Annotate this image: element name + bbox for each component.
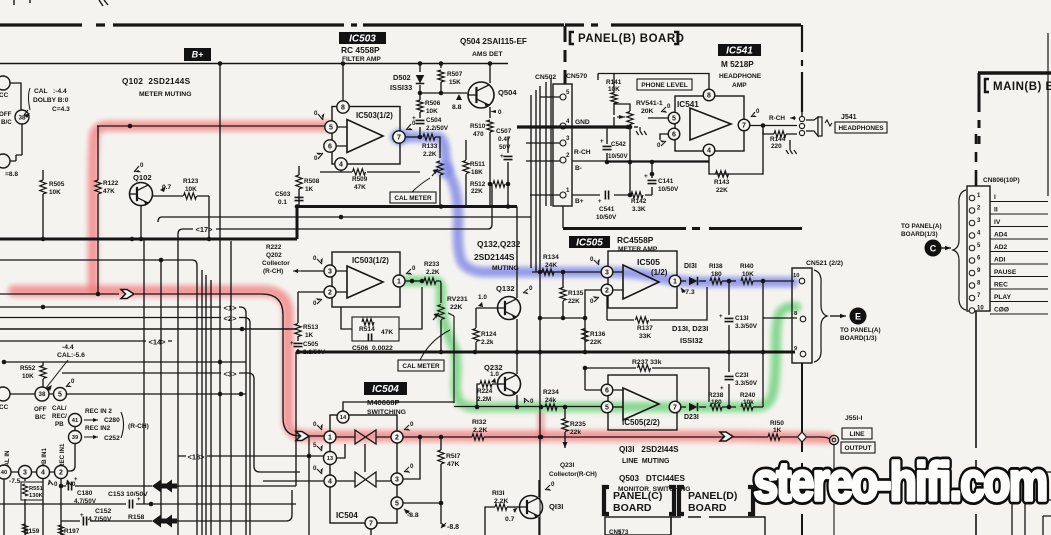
svg-text:0: 0	[313, 255, 317, 262]
resistor R140	[741, 278, 753, 284]
svg-text:CN806(10P): CN806(10P)	[983, 177, 1020, 184]
svg-text:2.2K: 2.2K	[426, 269, 440, 276]
op-amp IC505(2/2) rect	[608, 375, 677, 430]
svg-text:38: 38	[39, 391, 46, 398]
svg-text:R513: R513	[303, 324, 319, 331]
resistor R510	[487, 120, 493, 132]
wire y=217 line	[158, 217, 531, 222]
svg-text:47K: 47K	[447, 461, 460, 468]
connector CN806 pin 7 PLAY	[969, 295, 975, 301]
pin 3 IC504	[391, 473, 403, 485]
headphone plug symbol	[806, 117, 818, 136]
op-amp IC541 triangle	[690, 108, 731, 140]
pin 7 IC504	[365, 517, 377, 529]
wire Q504 emitter down to R510	[489, 107, 491, 118]
svg-text:R237 33k: R237 33k	[632, 359, 662, 366]
wire feedback R509 loop	[320, 170, 420, 172]
pin 6 IC505b	[601, 384, 613, 396]
highlight green line-out trace	[402, 281, 796, 407]
svg-text:15K: 15K	[449, 79, 461, 86]
svg-text:C280: C280	[104, 417, 120, 424]
pin 38 lower	[35, 387, 49, 401]
resistor R233	[424, 278, 436, 284]
wire R122 vertical x=98	[97, 126, 99, 294]
svg-text:0: 0	[590, 256, 594, 263]
svg-text:PAUSE: PAUSE	[994, 269, 1017, 276]
svg-text:2.2k: 2.2k	[481, 339, 494, 346]
resistor R132	[472, 434, 484, 440]
wire pins 41-39 to pin2	[67, 427, 75, 471]
label -8.8 below R517	[441, 523, 446, 528]
svg-text:8.8: 8.8	[452, 104, 462, 111]
svg-text:J541: J541	[841, 114, 857, 121]
svg-text:1.0: 1.0	[490, 371, 499, 378]
resistor R508	[296, 175, 302, 189]
resistor R131	[495, 504, 507, 510]
arrow 0 Q504 emitter	[490, 110, 496, 113]
wire Q102 collector line y=126 (under red)	[97, 125, 325, 127]
svg-text:4: 4	[339, 162, 343, 169]
pin 5 IC503	[325, 121, 337, 133]
svg-text:10K: 10K	[49, 189, 61, 196]
wire Q132 base R124	[476, 308, 498, 352]
transistor Q232	[498, 373, 521, 396]
pin 38	[15, 110, 29, 124]
wire Q102 base to R123 to x=209	[152, 196, 209, 239]
connector J541 contacts	[799, 116, 804, 121]
svg-text:R137: R137	[637, 325, 653, 332]
op-amp IC505(1/2) triangle	[623, 265, 659, 299]
svg-text:Q102: Q102	[133, 173, 152, 182]
svg-text:C152: C152	[95, 508, 111, 515]
svg-text:Q503 DTCI44ES: Q503 DTCI44ES	[619, 474, 686, 483]
capacitor C541	[605, 191, 608, 200]
svg-text:-4.4: -4.4	[62, 344, 74, 351]
resistor R505	[40, 180, 46, 194]
chip IC504 rect	[330, 415, 397, 523]
svg-text:R124: R124	[481, 331, 497, 338]
diode D131	[681, 280, 686, 282]
svg-text:3: 3	[605, 270, 609, 277]
svg-text:PANEL(D): PANEL(D)	[688, 490, 737, 502]
svg-text:AMP: AMP	[732, 82, 747, 89]
svg-text:C153 10/50V: C153 10/50V	[108, 491, 148, 498]
wire x=309 below	[308, 436, 310, 535]
resistor R240	[741, 404, 753, 410]
resistor R507	[440, 64, 442, 69]
pin 1 IC503b	[393, 275, 405, 287]
svg-text:8: 8	[707, 93, 711, 100]
svg-text:D23I: D23I	[684, 414, 699, 421]
wire R137 feedback loop	[607, 287, 707, 320]
svg-text:<2>: <2>	[224, 314, 238, 323]
svg-text:RI32: RI32	[472, 419, 487, 426]
op-amp IC503(1/2) lower rect	[332, 252, 400, 307]
pin 8 IC541	[703, 89, 715, 101]
svg-text:+: +	[290, 341, 294, 347]
svg-text:IC503: IC503	[349, 34, 376, 45]
svg-text:HEADPHONES: HEADPHONES	[838, 125, 884, 132]
pin 7 IC503	[393, 131, 405, 143]
pin 8 IC503	[342, 64, 344, 102]
wire stubs into CN502	[526, 97, 560, 195]
svg-text:AD2: AD2	[994, 244, 1008, 251]
capacitor C542	[606, 127, 608, 162]
capacitor C152	[61, 520, 152, 522]
svg-text:REC IN1: REC IN1	[59, 443, 66, 468]
svg-text:0: 0	[54, 481, 58, 488]
resistor R136	[582, 329, 588, 342]
label B+ box	[184, 48, 211, 61]
svg-text:C541: C541	[599, 206, 615, 213]
label 8.8 arrow	[456, 94, 462, 100]
svg-text:3: 3	[566, 135, 570, 142]
svg-text:180: 180	[711, 271, 722, 278]
svg-text:2: 2	[566, 152, 570, 159]
resistor R509	[353, 169, 366, 175]
connector pin 3 R-CH	[560, 140, 566, 146]
resistor R137	[636, 317, 649, 323]
svg-text:E: E	[855, 312, 861, 322]
svg-text:2: 2	[59, 470, 63, 477]
resistor R506	[417, 100, 423, 112]
wire thick ground bus y=239	[0, 238, 297, 241]
svg-text:LINE MUTING: LINE MUTING	[622, 458, 670, 465]
label CAL METER box top	[390, 192, 436, 203]
svg-text:-7.5: -7.5	[9, 478, 21, 485]
svg-text:PLAY: PLAY	[994, 294, 1012, 301]
capacitor C503	[295, 197, 304, 200]
svg-text:2.2M: 2.2M	[477, 396, 491, 403]
wire vertical x=220 B+ to bottom	[219, 64, 221, 535]
wire line y=294 with bus arrow (under red)	[0, 294, 308, 436]
ground at GND bus	[634, 126, 638, 128]
svg-text:R197: R197	[64, 528, 80, 535]
svg-text:Q102 2SD2144S: Q102 2SD2144S	[122, 77, 191, 86]
chevron arrow y=486	[152, 480, 166, 493]
svg-text:OFF: OFF	[0, 111, 12, 118]
svg-text:R507: R507	[447, 71, 463, 78]
resistor R512	[493, 181, 505, 187]
svg-text:+: +	[412, 115, 416, 122]
wire pin2 feedback	[585, 290, 623, 352]
svg-text:0: 0	[657, 142, 661, 149]
svg-text:2.2K: 2.2K	[494, 498, 508, 505]
resistor R517	[438, 450, 444, 464]
svg-text:22k: 22k	[570, 429, 581, 436]
wire <18> line y=456	[178, 455, 324, 457]
pin 2 IC505a	[601, 284, 613, 296]
connector box CN573	[605, 517, 671, 535]
svg-text:7: 7	[369, 521, 373, 528]
svg-text:REC: REC	[994, 282, 1008, 289]
svg-text:0: 0	[590, 298, 594, 305]
svg-text:D502: D502	[393, 73, 411, 82]
svg-text:AD4: AD4	[994, 232, 1008, 239]
svg-text:Collector(R-CH): Collector(R-CH)	[549, 471, 597, 478]
svg-text:2.2K: 2.2K	[423, 151, 437, 158]
svg-text:BOARD: BOARD	[688, 502, 727, 514]
connector CN806 pin 9 PAUSE	[969, 270, 975, 276]
svg-text:6: 6	[328, 144, 332, 151]
bus arrow on y=294	[121, 290, 134, 299]
svg-text:2.2K: 2.2K	[473, 427, 487, 434]
connector CN806 pin 4 AD4	[969, 233, 975, 239]
label OUTPUT box	[841, 442, 875, 453]
wire pin verticals down	[4, 479, 61, 535]
svg-text:3: 3	[328, 269, 332, 276]
svg-text:1K: 1K	[305, 186, 314, 193]
wire R505 vertical	[42, 170, 44, 239]
arrow 0 Q131 collector	[545, 485, 550, 490]
svg-text:R222: R222	[266, 244, 282, 251]
brace right of CN521	[814, 270, 827, 362]
connector CN806 box	[967, 186, 990, 311]
diode D231	[681, 406, 686, 408]
wire pin1 row y=195 with C541 R142	[572, 194, 652, 196]
svg-text:Q504 2SAI115-EF: Q504 2SAI115-EF	[460, 37, 527, 46]
transistor Q132	[498, 297, 521, 320]
svg-text:RV231: RV231	[447, 296, 468, 303]
wire to CN521 pin8	[763, 281, 797, 407]
svg-text:<1>: <1>	[224, 304, 238, 313]
wire R131 left	[485, 507, 495, 535]
svg-text:RV541-1: RV541-1	[636, 100, 663, 107]
svg-text:18K: 18K	[471, 169, 483, 176]
svg-text:IC504: IC504	[336, 511, 358, 520]
resistor R511	[463, 161, 469, 174]
connector pin 2 B-	[560, 157, 566, 163]
svg-text:B/C: B/C	[1, 119, 12, 126]
wire R507 to Q504 base	[420, 82, 467, 93]
svg-text:C23I: C23I	[735, 372, 749, 379]
pin 2 lower	[55, 466, 68, 479]
svg-text:1: 1	[673, 279, 677, 286]
svg-text:0: 0	[71, 378, 75, 385]
capacitor C141	[651, 162, 653, 195]
svg-text:0: 0	[313, 300, 317, 307]
chevron arrow y=521	[152, 515, 166, 528]
wire small bus verticals x=202,206,211	[202, 270, 211, 535]
resistor R143	[716, 171, 729, 177]
svg-text:5: 5	[395, 501, 399, 508]
svg-text:0.47: 0.47	[498, 136, 511, 143]
svg-text:R235: R235	[570, 421, 586, 428]
label MAIN(B) header	[978, 71, 1051, 74]
svg-text:C=4.3: C=4.3	[52, 106, 70, 113]
wire below jack	[833, 445, 835, 535]
svg-text:R551: R551	[29, 486, 44, 492]
svg-text:22K: 22K	[450, 304, 463, 311]
brace R-CH	[121, 412, 124, 438]
switch symbol 1 IC504	[355, 430, 376, 444]
wire CN806 row lines right edge	[1047, 33, 1049, 196]
svg-text:<3>: <3>	[224, 370, 238, 379]
svg-text:4: 4	[41, 470, 45, 477]
svg-text:4: 4	[566, 118, 570, 125]
svg-text:R224: R224	[477, 388, 493, 395]
connector CN806 pin 5 AD2	[969, 245, 975, 251]
svg-text:ISSI33: ISSI33	[390, 83, 412, 92]
svg-text:MUTING: MUTING	[492, 265, 519, 272]
wire top board border dashed	[0, 23, 801, 26]
capacitor C231	[728, 352, 730, 407]
pin 1 IC504	[324, 431, 336, 443]
svg-text:10K: 10K	[185, 186, 197, 193]
svg-text:+: +	[719, 313, 723, 320]
resistor R124	[473, 329, 479, 342]
wire thick bus y=206.5 to x=517	[297, 207, 517, 240]
svg-text:0: 0	[756, 108, 760, 115]
svg-text:24k: 24k	[545, 397, 556, 404]
wire chevron line y=486 right	[172, 485, 296, 487]
resistor R235	[562, 419, 568, 432]
op-amp IC505(2/2) triangle	[623, 388, 659, 420]
wire B+ rail y=63.5	[0, 63, 508, 65]
connector box panel D bottom	[671, 517, 765, 535]
pin 5 lower	[54, 388, 67, 401]
resistor R122	[95, 180, 101, 194]
box bottom right 1	[1010, 472, 1051, 500]
svg-text:DI3I: DI3I	[684, 263, 697, 270]
svg-text:<17>: <17>	[195, 225, 213, 234]
wire pin7 to jack R-CH	[750, 125, 797, 127]
op-amp IC505(1/2) rect	[608, 251, 677, 308]
svg-text:IC505(2/2): IC505(2/2)	[622, 418, 660, 427]
svg-text:R143: R143	[714, 179, 730, 186]
svg-text:CN502: CN502	[535, 74, 556, 81]
svg-text:CC: CC	[0, 404, 9, 411]
svg-text:0: 0	[551, 481, 555, 488]
svg-text:14: 14	[340, 415, 347, 421]
wire Q131 emitter collector	[538, 480, 540, 535]
svg-text:METER MUTING: METER MUTING	[139, 91, 191, 98]
svg-text:AMS DET: AMS DET	[472, 51, 503, 58]
wire R133 to RV231a corner	[435, 137, 440, 158]
resistor R150	[768, 434, 780, 440]
wire pin7 to R133	[405, 136, 418, 138]
svg-text:C13I: C13I	[735, 315, 749, 322]
svg-text:ADI: ADI	[994, 257, 1006, 264]
svg-text:PHONE LEVEL: PHONE LEVEL	[641, 82, 688, 89]
wire pin5/pin6 to triangle	[336, 127, 347, 146]
svg-text:(R-CH): (R-CH)	[128, 423, 149, 430]
svg-text:Q132: Q132	[496, 284, 515, 293]
svg-text:0: 0	[314, 110, 318, 117]
svg-text:5: 5	[566, 89, 570, 96]
svg-text:CAL METER: CAL METER	[394, 195, 432, 202]
svg-text:0: 0	[313, 421, 317, 428]
resistor R142	[631, 192, 643, 198]
pin 13 IC504	[324, 452, 337, 465]
resistor R551 boxed	[21, 482, 43, 500]
svg-text:R144: R144	[770, 136, 786, 143]
svg-text:2SD2144S: 2SD2144S	[474, 252, 515, 262]
wire below CN806 vertical	[975, 311, 977, 535]
svg-text:(R-CH): (R-CH)	[263, 268, 283, 275]
svg-text:DOLBY B:0: DOLBY B:0	[33, 97, 69, 104]
potentiometer RV231	[438, 305, 444, 320]
svg-text:QI3I: QI3I	[549, 502, 563, 511]
svg-text:130K: 130K	[29, 493, 44, 499]
svg-text:7: 7	[742, 123, 746, 130]
svg-text:I: I	[994, 194, 996, 201]
pin 3 IC505a	[601, 266, 613, 278]
svg-text:R506: R506	[425, 100, 441, 107]
wire Q232 collector	[516, 352, 518, 374]
svg-text:R509: R509	[352, 176, 368, 183]
box bottom right 2	[1012, 500, 1051, 535]
wire line y=373 <3>	[62, 373, 300, 472]
svg-text:OFF: OFF	[34, 406, 47, 413]
svg-text:10/50V: 10/50V	[608, 153, 628, 160]
svg-text:R234: R234	[543, 389, 559, 396]
svg-text:2.2/50V: 2.2/50V	[426, 125, 449, 132]
svg-text:5: 5	[672, 116, 676, 123]
connector CN806 pin 10 C&#216;&#216;	[969, 308, 975, 314]
wire vertical bus left of CN570	[531, 78, 551, 272]
resistor R224	[480, 381, 492, 387]
svg-text:RI3I: RI3I	[492, 490, 505, 497]
svg-text:47K: 47K	[354, 184, 366, 191]
wire pins row y=472	[11, 471, 54, 473]
wire line y=329	[0, 328, 296, 330]
svg-text:<14>: <14>	[148, 338, 166, 347]
wire pin13 link	[336, 444, 345, 458]
svg-text:R5I7: R5I7	[446, 453, 461, 460]
svg-text:5: 5	[605, 405, 609, 412]
wire left lines into IC504 region	[263, 352, 324, 521]
pin 6 IC541	[668, 128, 680, 140]
wire line y=504 long	[0, 503, 296, 505]
svg-text:R122: R122	[103, 180, 119, 187]
svg-text:20K: 20K	[641, 108, 654, 115]
capacitor C504	[419, 112, 421, 137]
svg-text:22K: 22K	[568, 298, 580, 305]
svg-text:CAL METER: CAL METER	[402, 363, 440, 370]
wire top edge fragments	[14, 0, 108, 6]
svg-text:IC503(1/2): IC503(1/2)	[356, 111, 393, 120]
svg-text:OUTPUT: OUTPUT	[844, 445, 871, 452]
brace left of CN806	[953, 190, 966, 310]
wire PANEL(B) right boundary vertical x=802	[801, 25, 803, 112]
svg-text:+: +	[80, 513, 84, 519]
svg-text:C507: C507	[496, 128, 512, 135]
connector J551 jack	[829, 435, 838, 444]
pin 7 IC505b	[669, 401, 681, 413]
svg-text:B+: B+	[575, 198, 584, 205]
svg-text:7: 7	[397, 135, 401, 142]
svg-text:CAL :-4.4: CAL :-4.4	[34, 88, 67, 95]
pin 1 IC505a	[669, 275, 681, 287]
svg-text:40: 40	[1, 470, 7, 476]
svg-text:10K: 10K	[742, 271, 754, 278]
svg-text:LINE: LINE	[849, 431, 865, 438]
svg-text:+: +	[600, 138, 604, 145]
svg-text:B/C: B/C	[35, 414, 46, 421]
resistor R123	[184, 193, 197, 199]
pin 4 IC503	[335, 158, 347, 170]
svg-text:6: 6	[605, 388, 609, 395]
connector CN806 pin 1 I	[969, 195, 975, 201]
svg-text:GND: GND	[575, 119, 590, 126]
wire Q232 emitter	[516, 395, 518, 407]
svg-text:M 5218P: M 5218P	[721, 60, 754, 69]
svg-text:180: 180	[711, 399, 722, 406]
svg-text:13: 13	[327, 456, 333, 462]
bus arrow into pin1 (red)	[296, 432, 309, 441]
node circle 2 left	[0, 154, 10, 168]
